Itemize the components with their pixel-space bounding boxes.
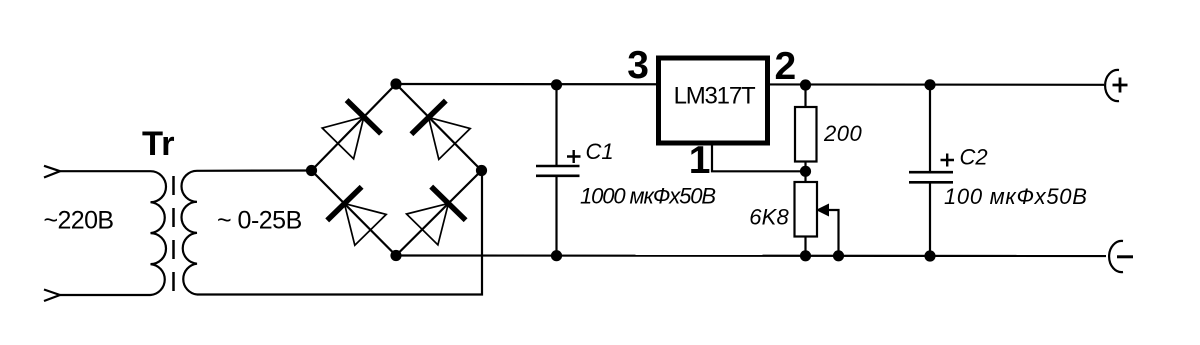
diode D1 triangle (top-left) [322,117,364,159]
node dot C1 top [551,79,562,90]
wire secondary bottom to bridge right node [197,171,482,295]
output terminal minus sign [1117,255,1133,258]
node dot C2 bottom [924,250,935,261]
capacitor C2 polarity plus [941,154,955,167]
output terminal plus arc [1105,70,1119,101]
resistor R1 bottom lead [804,162,806,172]
svg-text:3: 3 [627,44,649,87]
svg-text:C2: C2 [960,145,988,170]
node dot C1 bottom [551,250,562,261]
transformer core [172,176,175,292]
potentiometer R2 bottom lead [804,237,806,256]
svg-text:6K8: 6K8 [749,204,789,229]
input terminal arrow bottom [44,290,60,302]
bridge side TL wire [312,84,397,171]
potentiometer R2 6K8 body [795,182,818,237]
svg-text:1000 мкФх50В: 1000 мкФх50В [580,184,715,209]
bridge side BL wire [312,171,397,256]
input terminal arrow top [44,166,60,178]
node dot R2 bottom [800,250,811,261]
capacitor C2 lead wires [929,85,931,256]
diode D4 cathode bar [431,187,465,221]
svg-text:1: 1 [689,139,711,182]
bridge side BR wire [396,171,482,256]
capacitor C1 lead wires [555,85,557,256]
svg-text:200: 200 [823,121,862,146]
wire secondary top to bridge [197,169,312,172]
op-amp U1 LM317T box [659,58,768,143]
potentiometer wiper arrowhead [817,204,829,215]
svg-text:LM317T: LM317T [674,83,756,110]
diode D3 cathode bar [327,187,361,221]
diode D2 cathode bar [411,101,445,135]
node dot R1/R2/pin1 junction [800,166,811,177]
wire primary bottom [60,294,151,296]
diode D4 triangle (bottom-right) [407,203,449,244]
svg-text:100 мкФх50В: 100 мкФх50В [944,184,1088,209]
diode D2 triangle (top-right) [429,117,471,159]
node dot C2 top [924,79,935,90]
potentiometer R2 top lead [804,171,806,182]
node dot bridge right [476,165,487,176]
node dot wiper bottom [833,250,844,261]
resistor R1 top lead [804,85,806,107]
capacitor C1 plates [536,166,580,176]
svg-text:~220В: ~220В [44,207,114,235]
svg-text:~ 0-25В: ~ 0-25В [217,207,302,235]
svg-text:2: 2 [775,45,797,88]
node dot R1 top [800,79,811,90]
capacitor C2 plates [909,172,953,182]
output terminal minus arc [1109,241,1123,272]
top rail wire [396,83,1104,86]
svg-text:Tr: Tr [142,125,175,163]
diode D3 triangle (bottom-left) [344,204,386,246]
svg-text:C1: C1 [586,139,614,164]
potentiometer R2 wiper wire [827,210,839,256]
output terminal plus sign [1113,78,1128,93]
node dot bridge left [306,165,317,176]
LM317 pin1 wire [712,145,806,171]
node dot bridge top [390,78,401,89]
capacitor C1 polarity plus [567,150,581,163]
node dot bridge bottom [390,250,401,261]
transformer Tr primary winding [151,171,166,295]
resistor R1 200 body [795,107,817,162]
wire primary top [60,170,151,172]
transformer Tr secondary winding [181,171,197,295]
bottom rail wire [396,254,1106,257]
bridge side TR wire [396,84,482,171]
diode D1 cathode bar [347,100,381,134]
